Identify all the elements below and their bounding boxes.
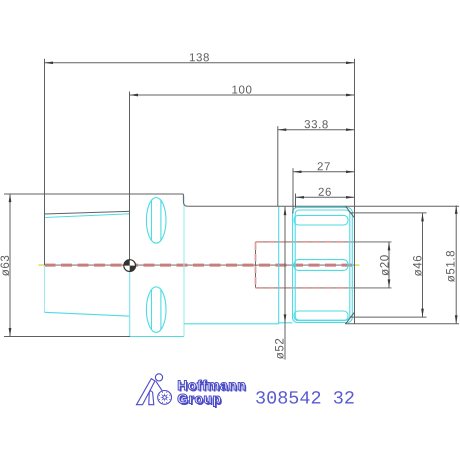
svg-text:ø20: ø20 xyxy=(379,254,391,276)
logo gear star xyxy=(159,392,171,404)
arrow dia20 top xyxy=(388,242,391,251)
svg-text:27: 27 xyxy=(317,161,331,173)
logo outer leg xyxy=(137,379,156,405)
dim line 33.8 xyxy=(278,129,355,131)
dia63 bottom extension xyxy=(4,336,130,338)
arrow dia46 top xyxy=(421,213,424,222)
gray flange top edge with dia63 extension xyxy=(4,193,183,195)
arrow 100 left xyxy=(130,94,139,97)
bore hidden line left (thin) xyxy=(255,242,257,288)
cyan middle section bottom edge xyxy=(184,323,279,325)
svg-text:138: 138 xyxy=(189,52,210,64)
nut inner outline xyxy=(295,210,350,320)
dim line dia63 xyxy=(9,194,11,337)
extension line 27 left xyxy=(292,168,294,213)
node circle at flange face xyxy=(124,260,136,272)
dim line 26 xyxy=(296,196,355,198)
nut slot bottom xyxy=(294,311,348,321)
svg-text:100: 100 xyxy=(231,84,252,96)
gray right end chamfer bottom xyxy=(346,312,355,324)
logo gear ring xyxy=(158,391,172,405)
drive slot oval top inner right xyxy=(160,201,162,241)
arrow dia63 top xyxy=(9,194,12,203)
arrow 33.8 right xyxy=(346,128,355,131)
nut slot top xyxy=(294,215,348,225)
arrow dia51.8 bottom xyxy=(455,315,458,324)
extension line 33.8 left xyxy=(277,126,279,206)
cyan flange right face (step) xyxy=(183,196,185,337)
dim line 100 xyxy=(130,94,355,96)
svg-text:ø51.8: ø51.8 xyxy=(446,250,458,282)
centerline yellow tick left xyxy=(39,264,45,266)
drive slot oval top inner left xyxy=(151,201,153,241)
svg-text:33.8: 33.8 xyxy=(304,119,329,131)
dim line dia51.8 xyxy=(455,205,457,323)
gray step with fillet xyxy=(183,194,188,206)
svg-text:Group: Group xyxy=(177,391,221,407)
dim line 27 xyxy=(293,171,355,173)
arrow 138 left xyxy=(45,61,54,64)
centerline red dashes xyxy=(45,264,355,267)
dim line dia46 xyxy=(422,213,424,317)
svg-text:308542 32: 308542 32 xyxy=(255,389,355,410)
cyan flange bottom edge xyxy=(130,336,184,338)
gray right face / common extension line xyxy=(354,59,356,324)
bore hidden line bottom (thin) xyxy=(256,287,392,289)
arrow dia52 bottom xyxy=(284,314,287,323)
logo arm xyxy=(156,381,162,390)
dim line dia20 xyxy=(388,242,390,288)
cyan taper bottom edge xyxy=(45,312,131,316)
dia51.8 bottom extension xyxy=(345,323,459,325)
svg-text:ø52: ø52 xyxy=(274,338,286,360)
arrow 138 right xyxy=(346,61,355,64)
centerline (thin) xyxy=(40,264,359,266)
arrow dia51.8 top xyxy=(455,205,458,214)
dia46 top extension xyxy=(350,212,427,214)
svg-text:ø46: ø46 xyxy=(413,255,425,277)
extension line 100 left / flange face xyxy=(129,92,131,266)
dim line dia52 xyxy=(284,207,286,360)
cyan taper top edge xyxy=(45,214,131,218)
drive slot oval top xyxy=(146,198,166,244)
centerline yellow tick right xyxy=(355,264,360,266)
drive slot oval bottom xyxy=(146,287,166,333)
nut outer body xyxy=(293,208,353,323)
dim line 138 xyxy=(45,62,355,64)
arrow dia63 bottom xyxy=(9,328,12,337)
svg-text:ø63: ø63 xyxy=(0,255,12,277)
bore red dashed left xyxy=(255,243,257,288)
bore red dashed bottom xyxy=(256,287,352,289)
gray taper top edge xyxy=(45,211,130,214)
drive slot oval bottom inner left xyxy=(151,290,153,330)
arrow 26 left xyxy=(296,196,305,199)
drive slot oval bottom inner right xyxy=(160,290,162,330)
logo head xyxy=(155,374,162,381)
cyan flange left face (bottom half) xyxy=(129,265,131,336)
arrow 26 right xyxy=(346,196,355,199)
arrow dia20 bottom xyxy=(388,279,391,288)
bore hidden line top (thin) xyxy=(256,241,392,243)
cyan left face of taper xyxy=(44,218,46,313)
bore red dashed top xyxy=(256,241,352,243)
gray top edge middle + dia51.8 extension xyxy=(188,205,459,207)
svg-text:26: 26 xyxy=(318,187,332,199)
extension line 26 left xyxy=(295,194,297,208)
logo text Hoffmann xyxy=(177,377,247,408)
arrow 27 right xyxy=(346,170,355,173)
gray right end chamfer top xyxy=(346,206,355,218)
logo inner leg xyxy=(149,391,154,405)
extension line 138 left xyxy=(44,59,46,265)
Hoffmann Group logo figure xyxy=(137,374,172,405)
arrow 27 left xyxy=(293,170,302,173)
arrow dia46 bottom xyxy=(421,309,424,318)
arrow 33.8 left xyxy=(278,128,287,131)
cyan step before nut xyxy=(278,207,280,324)
arrow 100 right xyxy=(346,94,355,97)
dia46 bottom extension xyxy=(350,316,427,318)
cyan ring bottom edge xyxy=(279,322,293,324)
arrow dia52 top xyxy=(284,207,287,216)
nut slot middle xyxy=(294,260,348,271)
